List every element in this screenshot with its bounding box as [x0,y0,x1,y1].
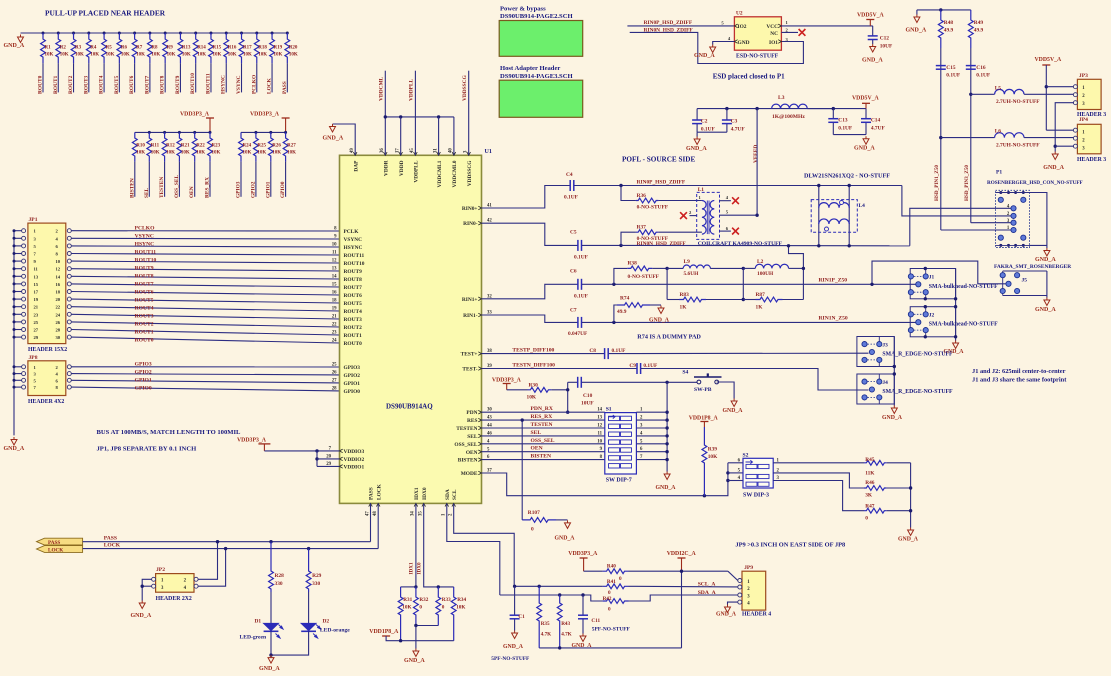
svg-text:11K: 11K [865,471,875,477]
resistor R45 11K [773,462,864,464]
svg-text:NC: NC [770,31,778,37]
svg-text:0.1UF: 0.1UF [946,72,961,78]
resistor R30 10K [507,389,528,391]
svg-text:GND_A: GND_A [4,446,25,452]
transformer L1 COILCRAFT KA4909 [697,192,720,239]
wire net TESTP_DIFF100 through C8 [482,353,605,355]
svg-text:OEN: OEN [466,450,478,456]
wire net stub SEL [148,162,150,197]
svg-text:10K: 10K [289,53,298,58]
svg-text:LED-orange: LED-orange [320,628,350,634]
svg-text:DS90UB914-PAGE2.SCH: DS90UB914-PAGE2.SCH [500,13,573,20]
svg-text:10K: 10K [151,151,160,156]
svg-text:3K: 3K [865,493,873,499]
svg-text:14: 14 [56,274,61,279]
svg-text:IDX1: IDX1 [414,487,420,500]
wire VDDCML rail to U1 top pins [384,71,386,156]
svg-text:ROUT1: ROUT1 [53,75,59,94]
svg-text:GND_A: GND_A [404,658,425,664]
svg-text:ROUT5: ROUT5 [135,297,154,303]
svg-text:10K: 10K [167,53,176,58]
wire net stub PCLKO [256,63,258,92]
svg-text:VDD3P3_A: VDD3P3_A [237,438,267,444]
svg-text:VFEED: VFEED [753,145,759,163]
svg-text:R40: R40 [607,564,616,570]
svg-text:10UF: 10UF [581,401,594,407]
svg-text:PASS: PASS [282,81,288,94]
svg-text:J1: J1 [929,275,935,281]
svg-text:10K: 10K [212,151,221,156]
svg-text:GPIO3: GPIO3 [344,365,361,371]
svg-text:GND_A: GND_A [854,146,875,152]
svg-text:10K: 10K [402,605,411,611]
svg-text:ROUT8: ROUT8 [135,273,154,279]
svg-text:C13: C13 [838,117,848,123]
wire net SDA_A [500,595,603,601]
svg-text:R107: R107 [528,510,540,516]
svg-text:R33: R33 [442,597,451,603]
svg-text:0: 0 [865,515,868,521]
svg-text:RES_RX: RES_RX [205,177,211,198]
svg-text:JP1, JP8 SEPARATE BY 0.1 INCH: JP1, JP8 SEPARATE BY 0.1 INCH [97,446,198,453]
wire R45 R46 R47 common to ground [910,463,912,528]
wire net ROUT11 JP1 to U1 pin 11 [71,254,339,256]
svg-text:10K: 10K [258,53,267,58]
wire net ROUT0 JP1 to U1 pin 24 [71,337,339,343]
svg-text:0: 0 [619,576,622,582]
svg-text:10K: 10K [212,53,221,58]
wire net HSYNC JP1 to U1 pin 10 [71,246,339,247]
svg-text:VDDR: VDDR [384,160,390,176]
svg-text:22: 22 [56,305,61,310]
capacitor C13 0.1UF [832,109,834,119]
svg-text:14: 14 [332,275,337,280]
svg-text:IO2: IO2 [738,24,747,30]
wire net stub OEN [194,162,196,197]
svg-text:C4: C4 [566,172,573,178]
svg-text:R17: R17 [243,46,252,51]
svg-text:ROUT2: ROUT2 [344,325,363,331]
capacitor C7 0.047UF [577,317,579,328]
resistor R87 1K [742,268,744,299]
resistor R46 3K [773,473,864,488]
connector J2 SMA-bulkhead [910,307,955,337]
svg-text:R74: R74 [620,296,630,302]
svg-text:HEADER 3: HEADER 3 [1077,157,1106,163]
ground GND_A P1 [1044,248,1050,256]
capacitor C8 0.1UF [604,348,606,359]
wire U1 IDX1 pin 34 strap [415,503,417,587]
svg-text:ROUT9: ROUT9 [344,269,363,275]
svg-text:DS90UB914-PAGE3.SCH: DS90UB914-PAGE3.SCH [500,73,573,80]
wire TESTP to J3 [609,352,869,354]
svg-text:GND_A: GND_A [1043,165,1064,171]
svg-text:R38: R38 [628,260,638,266]
wire net stub OSS_SEL [178,162,180,197]
svg-text:L4: L4 [859,203,866,209]
svg-text:Power & bypass: Power & bypass [500,6,546,13]
wire net stub ROUT2 [73,63,75,92]
resistor R12 10K pull-up [163,131,166,134]
svg-text:ROUT4: ROUT4 [99,75,105,94]
svg-text:0.1UF: 0.1UF [838,125,853,131]
svg-text:HSD_PIN3_Z50: HSD_PIN3_Z50 [964,165,970,201]
op-amp U1 DS90UB914AQ body [340,155,482,503]
wire net RIN1P_Z50 [582,283,916,285]
resistor R40 0 [584,570,603,572]
svg-text:0.1UF: 0.1UF [574,255,589,261]
wire net stub TESTEN [164,162,166,197]
wire pull-up bus 2A [135,131,210,133]
wire IDX1 bus [401,586,416,588]
svg-text:C9: C9 [629,363,636,369]
svg-text:34: 34 [411,511,416,516]
svg-text:JP2: JP2 [156,567,165,573]
svg-text:PASS: PASS [48,540,60,546]
svg-text:VCC: VCC [766,24,778,30]
svg-text:L5: L5 [995,85,1002,91]
svg-text:R31: R31 [403,597,412,603]
resistor R28 330 [269,540,272,543]
wire net stub ROUT9 [179,63,181,92]
svg-text:R37: R37 [637,225,647,231]
svg-text:IO1: IO1 [769,40,778,46]
wire JP3 pin3 to JP4 pin3 to ground [1055,103,1074,152]
capacitor C5 0.1UF [577,240,579,251]
svg-text:ROUT2: ROUT2 [135,321,154,327]
ground GND_A J5 [1044,298,1050,306]
svg-text:2.7UH-NO-STUFF: 2.7UH-NO-STUFF [996,142,1040,148]
resistor R35 4.7K [537,586,542,648]
wire net stub ROUT8 [164,63,166,92]
resistor R25 10K pull-up [254,131,257,134]
capacitor C6 0.1UF [577,279,579,290]
svg-text:C6: C6 [570,269,577,275]
svg-text:R74 IS A DUMMY PAD: R74 IS A DUMMY PAD [637,334,701,341]
svg-text:TESTN_DIFF100: TESTN_DIFF100 [512,362,555,368]
svg-text:C11: C11 [591,618,600,624]
svg-text:10K: 10K [90,53,99,58]
svg-text:PDN: PDN [466,410,477,416]
wire net ROUT7 JP1 to U1 pin 15 [71,284,339,287]
resistor R42 0 [603,599,629,604]
pin L1 pin6 stub X [720,230,731,232]
svg-text:GPIO3: GPIO3 [135,361,152,367]
svg-text:0-NO-STUFF: 0-NO-STUFF [637,205,669,211]
wire VDD3P3_A to U1 VDDIO pins [264,450,339,452]
svg-text:13: 13 [34,274,39,279]
svg-text:ROUT0: ROUT0 [135,337,154,343]
svg-text:R22: R22 [196,144,205,149]
resistor R16 10K pull-up [225,32,228,35]
resistor R7 10K pull-up [133,32,136,35]
resistor R48 49.9 [938,10,943,48]
svg-text:23: 23 [34,312,39,317]
svg-text:RIN0P_HSD_ZDIFF: RIN0P_HSD_ZDIFF [637,180,686,186]
svg-text:J5: J5 [1022,278,1028,284]
svg-text:0.047UF: 0.047UF [568,331,588,337]
wire net stub GPIO2 [255,162,257,197]
svg-text:D1: D1 [255,619,262,625]
wire J5 shell to ground [1046,271,1048,298]
capacitor C14 4.7UF [865,109,867,119]
svg-text:RIN0+: RIN0+ [462,206,478,212]
svg-text:10K: 10K [75,53,84,58]
wire RIN1P to J5 detour [872,261,1006,284]
svg-text:ROUT11: ROUT11 [344,253,365,259]
svg-text:VDD3P3_A: VDD3P3_A [492,377,522,383]
svg-text:10K: 10K [527,394,537,400]
svg-text:0: 0 [442,605,445,611]
wire RES_RX to R107 [521,420,523,520]
resistor R22 10K pull-up [193,131,196,134]
svg-text:TESTP_DIFF100: TESTP_DIFF100 [512,347,554,353]
resistor R41 0 [603,584,629,589]
svg-text:BISTEN: BISTEN [129,178,135,198]
wire net HSD_PIN3_Z50 vertical [970,48,972,223]
svg-text:ESD placed closed to P1: ESD placed closed to P1 [713,73,785,81]
inductor L6 2.7UH-NO-STUFF [939,136,942,139]
svg-text:16: 16 [56,282,61,287]
wire net ROUT3 JP1 to U1 pin 21 [71,314,339,319]
wire VDDSSCG to U1 pin 3 [468,71,470,156]
wire net RIN0N_HSD_ZDIFF to U2 IO1 [630,32,804,63]
resistor R19 10K pull-up [271,32,274,35]
svg-text:RIN0P_HSD_ZDIFF: RIN0P_HSD_ZDIFF [644,20,693,26]
svg-text:R4: R4 [90,46,97,51]
wire RIN0P to P1 pin 2 [902,186,1011,216]
svg-text:SW-PB: SW-PB [694,387,712,393]
wire net PCLKO JP1 to U1 pin 8 [71,230,339,232]
wire net SEL U1 to S1 pin 11 [482,435,605,437]
pin L1 pin2 stub X [690,215,697,217]
LED D1 LED-green [270,592,272,623]
capacitor C12 10UF [872,26,874,36]
svg-text:TEST-: TEST- [462,367,477,373]
svg-text:27: 27 [332,378,337,383]
svg-text:S1: S1 [606,407,612,413]
svg-text:ROUT11: ROUT11 [205,73,211,94]
svg-text:0.1UF: 0.1UF [976,72,991,78]
svg-text:R25: R25 [257,144,266,149]
svg-text:ROUT10: ROUT10 [190,73,196,94]
wire R30 node to PDN_RX [567,382,569,412]
svg-text:ROUT5: ROUT5 [114,75,120,94]
wire S2 left pins common [727,463,729,481]
svg-text:VSYNC: VSYNC [344,237,363,243]
svg-text:VDDI2C_A: VDDI2C_A [667,551,697,557]
resistor R3 10K pull-up [72,32,75,35]
svg-text:ROUT8: ROUT8 [160,75,166,94]
svg-text:4.7K: 4.7K [561,631,572,637]
svg-text:VDDPLL: VDDPLL [414,160,420,183]
wire U1 SCL pin 2 down [454,503,515,586]
svg-text:PASS: PASS [104,535,117,541]
resistor R1 10K pull-up [42,32,45,35]
svg-text:L9: L9 [684,259,691,265]
svg-text:ROUT4: ROUT4 [344,309,363,315]
svg-text:VDDSSCG: VDDSSCG [462,74,468,101]
wire net stub GPIO3 [240,162,242,197]
svg-text:SMA-bulkhead-NO-STUFF: SMA-bulkhead-NO-STUFF [929,284,998,290]
svg-text:10: 10 [597,439,602,444]
svg-text:SEL: SEL [467,434,478,440]
resistor R21 10K pull-up [178,131,181,134]
ground GND_A JP1 bus [11,437,17,445]
wire U1 RIN0+ pin 41 through C4 [482,186,570,209]
resistor R32 0 [414,587,419,626]
wire net stub ROUT0 [42,63,44,92]
svg-text:GND_A: GND_A [649,318,670,324]
svg-text:SMA_R_EDGE-NO-STUFF: SMA_R_EDGE-NO-STUFF [882,389,953,395]
wire net stub RES_RX [209,162,211,197]
wire RIN0N to P1 pin 4 [910,208,1011,246]
svg-text:19: 19 [332,307,337,312]
connector J3 SMA_R_EDGE [857,337,894,367]
svg-text:0.1UF: 0.1UF [643,363,658,369]
svg-text:GND_A: GND_A [716,612,737,618]
svg-text:C7: C7 [570,308,577,314]
svg-text:TEST+: TEST+ [461,352,478,358]
wire net stub ROUT1 [57,63,59,92]
wire net RIN0N continues east [621,244,910,246]
svg-text:SEL: SEL [531,430,542,436]
svg-text:VDDCML0: VDDCML0 [452,160,458,187]
svg-text:VDDPLL: VDDPLL [409,78,415,101]
svg-text:JP9 >0.3 INCH ON EAST SIDE OF: JP9 >0.3 INCH ON EAST SIDE OF JP8 [735,542,845,549]
wire net RIN1N_Z50 [582,321,916,323]
svg-text:GPIO2: GPIO2 [250,181,256,198]
ground GND_A C11 [580,634,586,642]
svg-text:0-NO-STUFF: 0-NO-STUFF [628,274,660,280]
inductor L2 100UH [742,267,745,270]
svg-text:10K: 10K [45,53,54,58]
wire L1 pin5 to VFEED [720,214,758,216]
svg-text:PULL-UP PLACED NEAR HEADER: PULL-UP PLACED NEAR HEADER [45,9,166,18]
wire net ROUT6 JP1 to U1 pin 16 [71,292,339,296]
svg-text:VDD5V_A: VDD5V_A [1035,57,1063,63]
wire net stub GPIO0 [285,162,287,197]
svg-text:10K: 10K [197,53,206,58]
svg-text:17: 17 [396,148,401,153]
ground GND_A U2 [710,45,716,53]
svg-text:31: 31 [433,148,438,153]
svg-text:OEN: OEN [189,186,195,198]
svg-text:12: 12 [56,267,61,272]
wire net ROUT9 JP1 to U1 pin 13 [71,269,339,271]
wire U2 GND pin to ground [713,42,735,45]
svg-text:R28: R28 [275,573,285,579]
svg-text:C2: C2 [701,119,708,125]
svg-text:RIN0N_HSD_ZDIFF: RIN0N_HSD_ZDIFF [644,28,694,34]
svg-text:LOCK: LOCK [267,77,273,94]
wire VDD5V to JP3 JP4 pin1 [1045,65,1047,130]
svg-text:GND_A: GND_A [694,53,715,59]
svg-text:10K: 10K [228,53,237,58]
svg-text:R2: R2 [60,46,67,51]
svg-text:JP4: JP4 [1079,117,1088,123]
svg-text:ROUT2: ROUT2 [68,75,74,94]
svg-text:18: 18 [332,299,337,304]
svg-text:ROSENBERGER_HSD_CON_NO-STUFF: ROSENBERGER_HSD_CON_NO-STUFF [987,180,1083,186]
resistor R27 10K pull-up [284,131,287,134]
svg-text:11: 11 [332,251,337,256]
svg-text:SDA: SDA [445,489,451,500]
wire net stub GPIO1 [270,162,272,197]
svg-text:DS90UB914AQ: DS90UB914AQ [386,403,433,411]
svg-text:R15: R15 [212,46,221,51]
svg-text:GND_A: GND_A [898,537,919,543]
svg-text:20: 20 [56,297,61,302]
svg-text:ROUT3: ROUT3 [135,313,154,319]
svg-text:R1: R1 [45,46,52,51]
svg-text:MODE: MODE [461,471,478,477]
svg-text:RIN1N_Z50: RIN1N_Z50 [819,315,848,321]
svg-text:GND_A: GND_A [686,146,707,152]
resistor R43 4.7K [557,595,562,648]
wire U1 RIN0- pin 42 through C5 [482,223,578,245]
svg-text:R83: R83 [680,292,690,298]
svg-text:10K: 10K [136,53,145,58]
svg-text:VDD5V_A: VDD5V_A [857,13,885,19]
svg-text:R43: R43 [561,621,570,627]
svg-text:TESTEN: TESTEN [159,177,165,198]
wire net RIN0P_HSD_ZDIFF to U2 [627,25,734,27]
svg-text:VDD3P3_A: VDD3P3_A [250,112,280,118]
ground GND_A R48 bus [916,10,918,15]
svg-text:0.1UF: 0.1UF [574,294,589,300]
svg-text:HEADER 4: HEADER 4 [742,612,771,618]
svg-text:VSYNC: VSYNC [236,75,242,94]
pin U2 NC no-connect X [781,31,798,33]
connector J5 FAKRA [1003,270,1047,272]
resistor R14 10K pull-up [194,32,197,35]
resistor R38 0-NO-STUFF [614,268,627,284]
wire net RIN0N_HSD_ZDIFF main [582,244,621,246]
svg-text:U1: U1 [485,149,492,155]
port PASS off-page connector [37,538,83,545]
svg-text:R41: R41 [607,579,616,585]
svg-text:ROUT11: ROUT11 [135,249,157,255]
svg-text:R42: R42 [603,596,612,602]
svg-text:10K: 10K [60,53,69,58]
svg-text:R13: R13 [182,46,191,51]
svg-text:R7: R7 [136,46,143,51]
resistor R24 10K pull-up [239,132,244,161]
svg-text:48: 48 [373,511,378,516]
wire net ROUT10 JP1 to U1 pin 12 [71,261,339,263]
svg-text:25: 25 [332,362,337,367]
svg-text:GPIO1: GPIO1 [344,381,361,387]
svg-text:R10: R10 [136,144,145,149]
svg-text:C14: C14 [871,117,881,123]
svg-text:24: 24 [332,339,337,344]
resistor R23 10K pull-up [209,131,212,134]
svg-text:15: 15 [34,282,39,287]
ground GND_A DAP [330,124,336,132]
wire net stub ROUT3 [88,63,90,92]
svg-text:P1: P1 [996,170,1002,176]
resistor R5 10K pull-up [103,32,106,35]
wire S1 right pins to ground bus [666,382,668,471]
svg-text:10K: 10K [257,151,266,156]
svg-text:10K: 10K [272,151,281,156]
wire net ROUT4 JP1 to U1 pin 19 [71,307,339,311]
resistor R107 0 [522,518,556,523]
wire L2 R87 node to RIN0N line [789,246,804,300]
ground GND_A JP2 [139,601,145,609]
resistor R17 10K pull-up [240,32,243,35]
